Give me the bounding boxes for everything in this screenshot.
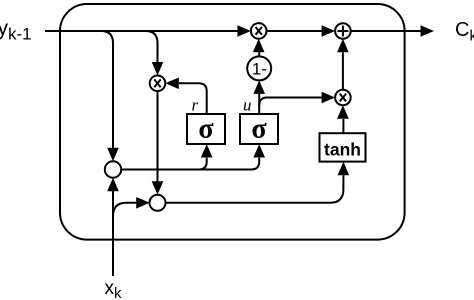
tanh box	[320, 133, 366, 161]
svg-text:u: u	[243, 96, 252, 115]
wire u branch to multiplier X3	[259, 98, 322, 107]
arrowhead into adder from bottom	[337, 39, 349, 53]
concat node N2	[150, 195, 166, 211]
adder	[335, 23, 351, 39]
wire main line output to C_k	[351, 30, 421, 32]
svg-text:yk-1: yk-1	[0, 17, 32, 44]
svg-text:1-: 1-	[252, 60, 267, 79]
wire y_{k-1} main line left segment	[45, 30, 238, 32]
arrowhead into X1 from top	[152, 62, 164, 76]
1- node	[247, 56, 271, 80]
svg-text:xk: xk	[105, 278, 123, 300]
svg-text:σ: σ	[251, 114, 267, 145]
wire 1- output to multiplier X2	[258, 52, 260, 56]
GRU cell boundary	[60, 4, 405, 240]
wire x_k input	[112, 191, 114, 276]
wire N2 output to tanh	[166, 175, 344, 202]
svg-text:tanh: tanh	[324, 140, 361, 160]
wire X1 output to concat node N2	[157, 91, 159, 181]
multiplier X2	[251, 23, 267, 39]
arrowhead into sigma u from bottom	[253, 144, 265, 158]
arrowhead into tanh from bottom	[338, 162, 350, 176]
wire tanh output to X3	[342, 119, 344, 133]
arrowhead into 1- node from bottom	[253, 80, 265, 94]
concat node N1	[105, 161, 121, 177]
multiplier X1	[150, 76, 166, 92]
wire x_k branch to concat node N2	[113, 203, 137, 216]
arrowhead into X2 from left	[237, 25, 251, 37]
arrowhead into X2 from bottom	[253, 39, 265, 53]
arrowhead into X3 from left	[322, 92, 336, 104]
wire X3 output to adder	[342, 53, 344, 90]
arrowhead output C_k	[421, 25, 435, 37]
wire sigma u output to 1- node	[258, 94, 260, 114]
arrowhead into N2 from left	[136, 197, 150, 209]
sigma u box	[240, 114, 278, 145]
svg-text:r: r	[192, 96, 199, 115]
arrowhead into sigma r from bottom	[201, 144, 213, 158]
arrowhead into X1 from right	[165, 78, 179, 90]
wire branch y to concat node N1	[101, 31, 113, 148]
wire N1 output to sigma u	[121, 158, 259, 170]
wire N1 output to sigma r	[121, 158, 207, 170]
arrowhead into N1 from bottom	[107, 178, 119, 192]
wire main line between X2 and plus	[267, 30, 322, 32]
arrowhead into adder from left	[322, 25, 336, 37]
svg-text:σ: σ	[198, 114, 214, 145]
svg-text:Ck: Ck	[455, 19, 474, 45]
arrowhead into N1 from top	[107, 148, 119, 162]
multiplier X3	[335, 90, 351, 106]
arrowhead into X3 from bottom	[337, 105, 349, 119]
sigma r box	[187, 114, 225, 145]
arrowhead into N2 from top	[152, 181, 164, 195]
wire sigma r output to X1	[179, 83, 207, 114]
wire branch y to multiplier X1	[146, 31, 158, 62]
